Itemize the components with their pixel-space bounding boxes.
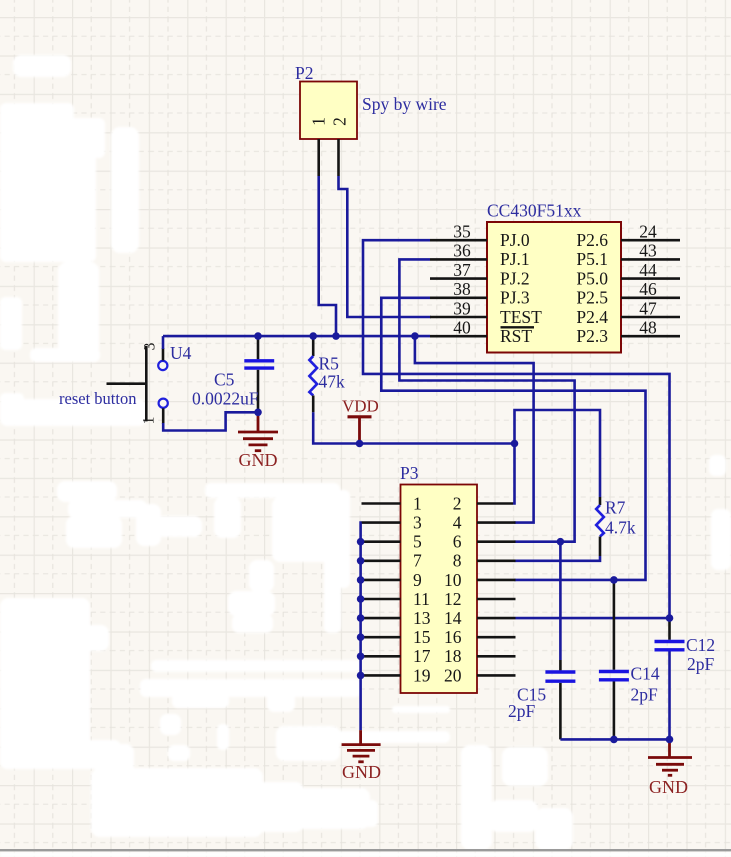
P3 pin 15 [362, 627, 431, 647]
wire P2 pin1 to RST net [319, 176, 336, 335]
junction bus pin19 [357, 672, 365, 680]
svg-text:C14: C14 [631, 664, 660, 684]
wire net RST horizontal [163, 335, 430, 338]
junction RST / R5 [309, 332, 317, 340]
svg-text:15: 15 [413, 627, 431, 647]
P2 pin 1 [317, 139, 320, 176]
svg-text:PJ.1: PJ.1 [500, 249, 530, 269]
svg-text:5: 5 [413, 532, 422, 552]
svg-text:46: 46 [639, 279, 657, 299]
svg-text:1: 1 [413, 493, 422, 513]
P3 pin 20 [444, 665, 516, 685]
junction bus pin11 [357, 595, 365, 603]
P3 pin 7 [362, 551, 423, 571]
wire P3 ground bus [359, 523, 362, 731]
svg-text:47k: 47k [319, 372, 346, 392]
P3 pin 8 [453, 551, 516, 571]
svg-text:6: 6 [453, 532, 462, 552]
pin 47 P2.4 [576, 298, 680, 327]
wire P2 pin2 to TEST net [339, 176, 432, 317]
capacitor C12 2pF [655, 617, 716, 739]
svg-text:18: 18 [444, 646, 462, 666]
svg-text:4: 4 [453, 513, 462, 533]
pin 37 PJ.2 [430, 260, 530, 289]
P3 pin 6 [453, 532, 516, 552]
junction P3 pin6 / C15 [557, 538, 565, 546]
svg-text:19: 19 [413, 665, 431, 685]
wire VDD rail to R7 top [515, 410, 601, 497]
svg-text:37: 37 [453, 260, 471, 280]
svg-text:RST: RST [500, 326, 532, 346]
svg-text:GND: GND [239, 450, 278, 470]
pin 36 PJ.1 [430, 241, 530, 270]
svg-text:11: 11 [413, 589, 430, 609]
capacitor C15 2pF [508, 542, 575, 740]
svg-text:2pF: 2pF [508, 701, 536, 721]
svg-text:2: 2 [453, 493, 462, 513]
junction P3 pin10 / C14 [610, 576, 618, 584]
svg-text:9: 9 [413, 570, 422, 590]
svg-text:47: 47 [639, 298, 657, 318]
junction P3 pin14 / C12 [666, 614, 674, 622]
capacitor C5 [192, 339, 274, 412]
junction VDD port [356, 440, 364, 448]
svg-text:C5: C5 [214, 370, 235, 390]
P3 pin 14 [444, 608, 516, 628]
svg-text:C12: C12 [686, 635, 715, 655]
P3 pin 4 [453, 513, 516, 533]
svg-text:12: 12 [444, 589, 462, 609]
svg-text:8: 8 [453, 551, 462, 571]
svg-text:P2: P2 [295, 63, 313, 83]
junction C5 / GND [254, 409, 262, 417]
P3 pin 10 [444, 570, 516, 590]
pin 46 P2.5 [576, 279, 680, 308]
P2 pin 2 [337, 139, 340, 176]
svg-text:P2.5: P2.5 [576, 288, 608, 308]
svg-text:44: 44 [639, 260, 657, 280]
junction bus pin17 [357, 653, 365, 661]
connector P3 [400, 463, 477, 693]
wire VDD rail to P3 pin 2 [513, 444, 515, 504]
svg-text:48: 48 [639, 318, 657, 338]
svg-text:P2.4: P2.4 [576, 307, 608, 327]
junction VDD rail / P3 pin2 / R7 [511, 440, 519, 448]
wire P3 pin14 to C12 column [516, 617, 670, 620]
P3 pin 1 [362, 493, 422, 513]
svg-text:PJ.2: PJ.2 [500, 268, 530, 288]
wire net PJ.0 (pin35 to P3.14 / C12) [363, 240, 670, 617]
svg-text:CC430F51xx: CC430F51xx [487, 201, 582, 221]
pin 43 P5.1 [576, 241, 680, 270]
svg-text:P5.0: P5.0 [576, 268, 608, 288]
svg-text:38: 38 [453, 279, 471, 299]
svg-text:7: 7 [413, 551, 422, 571]
resistor R7 4.7k [596, 497, 636, 556]
svg-text:PJ.0: PJ.0 [500, 230, 530, 250]
svg-text:R5: R5 [319, 354, 340, 374]
pin 39 TEST [430, 298, 542, 327]
svg-text:P3: P3 [400, 463, 419, 483]
wire switch pin3 to RST net [162, 336, 165, 349]
junction bus pin7 [357, 557, 365, 565]
svg-text:P2.3: P2.3 [576, 326, 608, 346]
svg-text:24: 24 [639, 222, 657, 242]
power VDD [342, 397, 379, 444]
svg-text:39: 39 [453, 298, 471, 318]
ground GND P3 [342, 730, 381, 782]
P3 pin 5 [362, 532, 423, 552]
svg-text:R7: R7 [605, 498, 626, 518]
svg-text:P2.6: P2.6 [576, 230, 608, 250]
P3 pin 2 [453, 493, 513, 513]
svg-text:35: 35 [453, 222, 471, 242]
pin 48 P2.3 [576, 318, 680, 347]
svg-text:GND: GND [649, 777, 688, 797]
svg-text:10: 10 [444, 570, 462, 590]
junction rail / GND [666, 736, 674, 744]
P3 pin 3 [362, 513, 423, 533]
svg-text:14: 14 [444, 608, 462, 628]
pin 40 RST overbar [430, 318, 534, 347]
wire switch pin1 to GND node [163, 412, 258, 430]
svg-text:GND: GND [342, 762, 381, 782]
wire net PJ.1 (pin36 to P3.6 / C15) [399, 259, 574, 541]
svg-text:P5.1: P5.1 [576, 249, 608, 269]
junction RST / C5 [254, 332, 262, 340]
wire R5 to VDD rail [313, 412, 514, 443]
ground GND C5 [238, 412, 278, 470]
svg-text:3: 3 [142, 342, 159, 350]
wire R7 bottom to P3 pin 8 [515, 556, 601, 561]
svg-text:1: 1 [141, 417, 158, 425]
P3 pin 17 [362, 646, 431, 666]
svg-text:3: 3 [413, 513, 422, 533]
junction bus pin9 [357, 576, 365, 584]
junction bus pin13 [357, 614, 365, 622]
wire RST to P3 pin 4 [415, 336, 534, 522]
svg-text:reset button: reset button [59, 389, 136, 408]
svg-text:U4: U4 [170, 343, 192, 363]
svg-text:4.7k: 4.7k [605, 518, 636, 538]
P3 pin 13 [362, 608, 431, 628]
svg-text:0.0022uF: 0.0022uF [192, 389, 259, 409]
svg-text:1: 1 [309, 117, 329, 126]
pin 24 P2.6 [576, 222, 680, 251]
svg-text:16: 16 [444, 627, 462, 647]
pin 38 PJ.3 [430, 279, 530, 308]
svg-text:2pF: 2pF [687, 654, 715, 674]
P3 pin 9 [362, 570, 423, 590]
resistor R5 47k [309, 339, 345, 412]
svg-text:VDD: VDD [342, 397, 379, 416]
junction bus pin15 [357, 633, 365, 641]
ground GND right [648, 739, 692, 797]
P3 pin 18 [444, 646, 516, 666]
svg-text:2: 2 [330, 117, 350, 126]
junction RST / P2 pin1 [332, 332, 340, 340]
wire net PJ.3 (pin38 to P3.10 / C14) [381, 298, 645, 580]
svg-text:17: 17 [413, 646, 431, 666]
svg-text:TEST: TEST [500, 307, 542, 327]
wire bottom ground rail [560, 738, 669, 741]
pin 44 P5.0 [576, 260, 680, 289]
P3 pin 16 [444, 627, 516, 647]
capacitor C14 2pF [599, 580, 660, 740]
pin 35 PJ.0 [430, 222, 530, 251]
P3 pin 12 [444, 589, 516, 609]
P3 pin 19 [362, 665, 431, 685]
junction rail / C14 [610, 736, 618, 744]
svg-text:PJ.3: PJ.3 [500, 288, 530, 308]
IC U1 CC430F51xx [487, 201, 621, 353]
svg-text:40: 40 [453, 318, 471, 338]
svg-text:36: 36 [453, 241, 471, 261]
connector P2 [295, 63, 357, 139]
svg-text:20: 20 [444, 665, 462, 685]
svg-text:2pF: 2pF [631, 685, 659, 705]
junction RST / P3 pin4 branch [411, 332, 419, 340]
svg-text:13: 13 [413, 608, 431, 628]
svg-text:Spy by wire: Spy by wire [362, 94, 447, 114]
switch U4 [107, 342, 192, 424]
P3 pin 11 [362, 589, 430, 609]
svg-text:43: 43 [639, 241, 657, 261]
junction bus pin5 [357, 538, 365, 546]
